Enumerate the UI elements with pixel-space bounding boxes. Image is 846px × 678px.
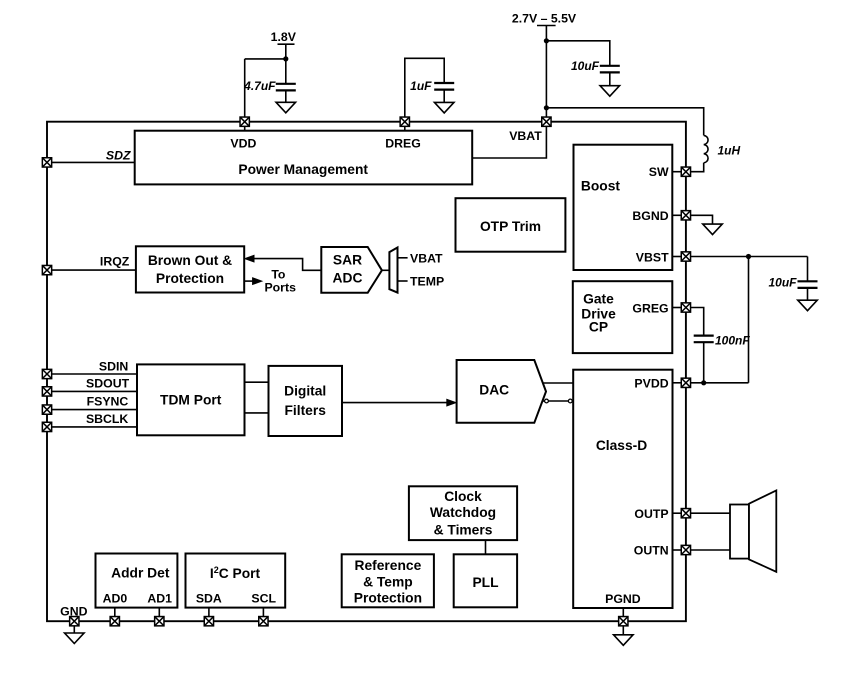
svg-text:Ports: Ports: [264, 280, 296, 294]
svg-text:Protection: Protection: [354, 591, 422, 606]
svg-text:Reference: Reference: [355, 558, 422, 573]
svg-text:SAR: SAR: [333, 253, 362, 268]
svg-text:4.7uF: 4.7uF: [243, 79, 276, 93]
svg-text:& Temp: & Temp: [363, 574, 413, 589]
svg-text:1uF: 1uF: [410, 79, 432, 93]
svg-text:Power Management: Power Management: [238, 162, 368, 177]
svg-text:ADC: ADC: [333, 271, 363, 286]
svg-text:Watchdog: Watchdog: [430, 505, 496, 520]
svg-text:TEMP: TEMP: [410, 275, 444, 289]
svg-text:OUTN: OUTN: [634, 544, 669, 558]
svg-text:Addr Det: Addr Det: [111, 565, 170, 580]
svg-text:VBAT: VBAT: [410, 251, 443, 265]
svg-text:Class-D: Class-D: [596, 438, 647, 453]
svg-text:2.7V – 5.5V: 2.7V – 5.5V: [512, 11, 577, 25]
svg-text:1.8V: 1.8V: [271, 30, 297, 44]
svg-text:10uF: 10uF: [768, 276, 797, 290]
svg-text:SBCLK: SBCLK: [86, 412, 128, 426]
svg-text:PVDD: PVDD: [634, 377, 668, 391]
svg-text:DREG: DREG: [385, 137, 421, 151]
svg-text:GND: GND: [60, 605, 87, 619]
svg-text:Protection: Protection: [156, 271, 224, 286]
svg-text:SCL: SCL: [251, 592, 276, 606]
svg-text:SW: SW: [649, 165, 669, 179]
svg-text:TDM Port: TDM Port: [160, 392, 222, 407]
svg-text:PLL: PLL: [472, 575, 498, 590]
svg-text:SDA: SDA: [196, 592, 222, 606]
svg-text:OUTP: OUTP: [634, 507, 668, 521]
svg-text:SDZ: SDZ: [106, 148, 131, 162]
svg-text:PGND: PGND: [605, 592, 641, 606]
svg-text:IRQZ: IRQZ: [100, 254, 130, 268]
svg-text:FSYNC: FSYNC: [87, 394, 129, 408]
svg-text:Boost: Boost: [581, 178, 620, 193]
svg-text:Clock: Clock: [444, 489, 482, 504]
svg-text:To: To: [271, 267, 286, 281]
svg-text:100nF: 100nF: [715, 334, 750, 348]
svg-text:AD0: AD0: [103, 592, 128, 606]
svg-text:SDOUT: SDOUT: [86, 377, 130, 391]
svg-text:Brown Out &: Brown Out &: [148, 253, 232, 268]
svg-text:GREG: GREG: [632, 302, 668, 316]
svg-text:AD1: AD1: [147, 592, 172, 606]
svg-text:VBAT: VBAT: [509, 129, 542, 143]
svg-text:BGND: BGND: [632, 209, 668, 223]
svg-text:& Timers: & Timers: [434, 523, 493, 538]
svg-text:1uH: 1uH: [718, 144, 741, 158]
svg-text:Gate: Gate: [583, 292, 614, 307]
svg-text:Digital: Digital: [284, 383, 326, 398]
svg-text:Filters: Filters: [284, 403, 326, 418]
svg-text:VBST: VBST: [636, 250, 669, 264]
svg-text:DAC: DAC: [479, 383, 509, 398]
svg-text:SDIN: SDIN: [99, 360, 128, 374]
svg-text:OTP Trim: OTP Trim: [480, 219, 541, 234]
svg-text:10uF: 10uF: [571, 59, 600, 73]
svg-text:VDD: VDD: [230, 137, 256, 151]
svg-text:CP: CP: [589, 320, 608, 335]
